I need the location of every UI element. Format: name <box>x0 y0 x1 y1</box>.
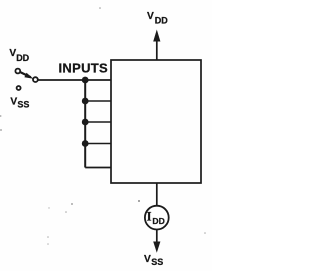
svg-text:V: V <box>147 11 154 22</box>
scan speck 9 <box>0 115 2 117</box>
scan speck 3 <box>138 200 140 202</box>
svg-text:INPUTS: INPUTS <box>59 61 108 76</box>
VSS label (switch, left) <box>10 96 29 109</box>
wire: input 5 elbow to box <box>85 167 111 169</box>
scan speck 7 <box>65 211 67 213</box>
switch S1 blade with wiper arrow <box>21 72 34 78</box>
scan speck 1 <box>99 7 101 9</box>
VDD label (top) <box>147 11 168 26</box>
junction dot node 3 <box>82 119 89 126</box>
svg-text:I: I <box>147 210 152 224</box>
VDD supply arrowhead (up) <box>153 30 160 42</box>
input bus vertical wire <box>84 80 86 168</box>
svg-text:V: V <box>144 254 151 265</box>
IDD label inside meter <box>147 210 165 226</box>
VSS arrowhead (down) <box>153 242 160 253</box>
VDD label (switch, left) <box>9 48 29 63</box>
wire: input 2 to box <box>85 100 111 102</box>
wire: input 3 to box <box>85 121 111 123</box>
switch S1 pole terminal VDD (circle) <box>15 69 20 74</box>
INPUTS label <box>59 61 108 76</box>
switch S1 throw terminal VSS (circle) <box>17 86 21 90</box>
wire: switch common to box (top input) <box>38 79 111 81</box>
svg-text:SS: SS <box>151 257 163 267</box>
scan speck 5 <box>47 243 49 245</box>
scan speck 4 <box>47 236 49 238</box>
scan speck 2 <box>0 129 2 131</box>
ammeter IDD (circle meter) <box>145 206 169 230</box>
svg-text:SS: SS <box>17 100 29 110</box>
wire: box bottom to ammeter <box>156 183 158 206</box>
scan speck 10 <box>204 232 206 234</box>
wire: input 4 to box <box>85 143 111 145</box>
svg-text:DD: DD <box>16 53 29 63</box>
device under test box U1 <box>111 60 201 183</box>
VSS label (bottom) <box>144 254 163 267</box>
svg-text:DD: DD <box>152 216 164 226</box>
scan speck 8 <box>48 207 49 208</box>
junction dot node 1 <box>82 77 89 84</box>
wire VDD supply stub (box top to arrow) <box>156 38 158 60</box>
junction dot node 4 <box>82 140 89 147</box>
svg-text:DD: DD <box>155 15 168 25</box>
switch S1 common terminal (circle) <box>33 77 38 82</box>
junction dot node 2 <box>82 98 89 105</box>
scan speck 6 <box>71 203 73 205</box>
wire: ammeter to VSS arrow <box>156 230 158 244</box>
svg-text:V: V <box>10 96 17 107</box>
